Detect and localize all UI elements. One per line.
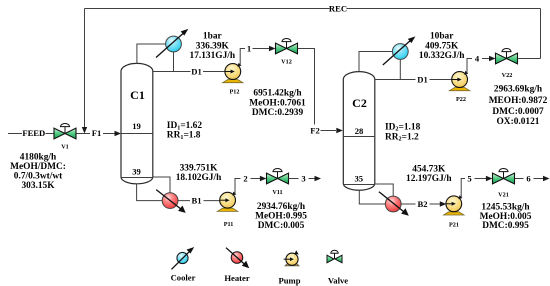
wire arrow into C2 [336, 128, 343, 133]
svg-text:RR2=1.2: RR2=1.2 [385, 133, 419, 143]
svg-text:P21: P21 [449, 222, 459, 229]
svg-text:5: 5 [467, 173, 471, 183]
wire P12 outlet to V12 [240, 49, 270, 67]
wire arrow product 3 [315, 176, 322, 181]
svg-text:DMC:0.005: DMC:0.005 [258, 221, 305, 231]
heater C1 reboiler [156, 190, 186, 213]
svg-text:V11: V11 [272, 189, 282, 196]
svg-text:17.131GJ/h: 17.131GJ/h [190, 51, 236, 61]
pump P11 [217, 192, 237, 212]
wire C1 condenser loop [137, 44, 174, 72]
wire V21 to product 6 [515, 178, 544, 180]
wire P21 outlet to V21 [461, 179, 487, 199]
svg-text:RR1=1.8: RR1=1.8 [167, 131, 201, 141]
svg-text:2934.76kg/h: 2934.76kg/h [257, 202, 306, 212]
wire V11 to product 3 [289, 178, 315, 180]
svg-text:MEOH:0.9872: MEOH:0.9872 [489, 96, 548, 106]
wire arrow into V12 [269, 46, 276, 51]
node C1 condenser data text [190, 32, 236, 61]
svg-text:1: 1 [247, 43, 251, 53]
svg-text:P12: P12 [230, 89, 240, 96]
wire arrow into V11 [260, 176, 267, 181]
svg-text:12.197GJ/h: 12.197GJ/h [406, 174, 452, 184]
svg-text:4: 4 [475, 53, 480, 63]
svg-text:10.332GJ/h: 10.332GJ/h [419, 51, 465, 61]
svg-text:ID2=1.18: ID2=1.18 [385, 122, 421, 132]
svg-text:3: 3 [301, 173, 305, 183]
cooler C1 condenser [156, 29, 188, 58]
svg-text:Heater: Heater [224, 273, 249, 283]
legend heater symbol [226, 248, 249, 269]
svg-text:F1: F1 [92, 128, 102, 138]
svg-text:39: 39 [132, 166, 141, 176]
node C2 reboiler data text [406, 165, 452, 184]
wire arrow product 6 [543, 176, 550, 181]
svg-text:V1: V1 [61, 144, 69, 151]
svg-text:1bar: 1bar [203, 32, 222, 42]
wire arrow into C1 [115, 131, 122, 136]
wire arrow into P21 [440, 201, 447, 206]
wire V22 to REC [518, 58, 541, 60]
legend cooler symbol [172, 247, 195, 269]
valve V11 [267, 169, 289, 184]
valve V12 [276, 39, 298, 54]
wire C2 reboiler loop right [375, 184, 393, 196]
svg-text:Valve: Valve [328, 276, 348, 286]
wire P22 outlet to V22 [467, 59, 491, 75]
wire arrow into V21 [486, 176, 493, 181]
wire B2 line [401, 203, 442, 205]
valve V21 [493, 169, 515, 184]
wire REC left vertical [84, 9, 86, 129]
svg-text:F2: F2 [310, 126, 320, 136]
svg-text:C2: C2 [352, 96, 367, 110]
legend pump symbol [284, 250, 299, 266]
svg-text:V12: V12 [281, 59, 292, 66]
wire C2 condenser loop [359, 52, 400, 80]
svg-text:409.75K: 409.75K [425, 42, 459, 52]
svg-text:FEED: FEED [22, 128, 45, 138]
svg-text:18.102GJ/h: 18.102GJ/h [176, 173, 222, 183]
pump P21 [444, 195, 464, 215]
node D2 stream data text [489, 85, 548, 127]
node C1 design data text [167, 121, 203, 141]
wire REC top line [85, 8, 541, 10]
svg-text:2: 2 [243, 173, 247, 183]
wire FEED line [8, 133, 116, 135]
svg-text:Cooler: Cooler [171, 273, 196, 283]
heater C2 reboiler [379, 192, 409, 216]
svg-text:6951.42kg/h: 6951.42kg/h [253, 89, 302, 99]
wire C1 reboiler loop right [153, 177, 170, 193]
pump P22 [449, 71, 469, 91]
wire D1 line [153, 71, 225, 73]
svg-text:DMC:0.0007: DMC:0.0007 [492, 107, 544, 117]
node C2 condenser data text [419, 32, 465, 62]
svg-text:303.15K: 303.15K [21, 181, 55, 191]
svg-text:DMC:0.995: DMC:0.995 [482, 221, 529, 231]
node B2 stream data text [480, 203, 532, 231]
svg-text:10bar: 10bar [430, 32, 453, 42]
svg-text:D1: D1 [191, 66, 202, 76]
node B1 stream data text [255, 202, 307, 231]
svg-text:2963.69kg/h: 2963.69kg/h [494, 85, 543, 95]
cooler C2 condenser [383, 36, 416, 65]
svg-text:28: 28 [355, 126, 364, 136]
column C1 [121, 63, 153, 183]
svg-text:P22: P22 [456, 96, 466, 103]
svg-text:B2: B2 [417, 199, 427, 209]
svg-text:OX:0.0121: OX:0.0121 [497, 117, 540, 127]
valve V22 [496, 49, 518, 64]
legend valve symbol [327, 250, 342, 263]
svg-text:336.39K: 336.39K [196, 41, 230, 51]
valve V1 [54, 124, 76, 139]
svg-text:6: 6 [526, 173, 531, 183]
svg-text:35: 35 [355, 173, 364, 183]
svg-text:V21: V21 [498, 192, 509, 199]
pump P12 [223, 63, 243, 83]
wire arrow into F1 line [82, 127, 87, 134]
wire V12 to F2 [298, 49, 337, 131]
node C1 reboiler data text [176, 164, 222, 184]
wire D2 line [375, 79, 452, 81]
node feed data text [10, 153, 66, 191]
svg-text:REC: REC [329, 4, 347, 14]
wire arrow into V22 [489, 56, 496, 61]
node D1 stream data text [249, 89, 306, 118]
svg-text:C1: C1 [130, 88, 145, 102]
node C2 design data text [385, 122, 421, 142]
wire C1 reboiler loop left [137, 184, 163, 201]
svg-text:DMC:0.2939: DMC:0.2939 [252, 108, 304, 118]
svg-text:Pump: Pump [279, 276, 301, 286]
wire P11 outlet to V11 [235, 179, 262, 195]
wire REC right vertical [540, 9, 542, 59]
wire C2 reboiler loop left [359, 190, 385, 204]
svg-text:B1: B1 [191, 195, 201, 205]
svg-text:4180kg/h: 4180kg/h [20, 153, 57, 163]
column C2 [343, 72, 375, 191]
svg-text:MeOH:0.7061: MeOH:0.7061 [249, 98, 306, 108]
svg-text:19: 19 [132, 121, 141, 131]
svg-text:D1: D1 [417, 74, 428, 84]
svg-text:339.751K: 339.751K [180, 164, 218, 174]
svg-text:V22: V22 [502, 72, 513, 79]
svg-text:P11: P11 [224, 221, 234, 228]
wire B1 line [178, 200, 220, 202]
